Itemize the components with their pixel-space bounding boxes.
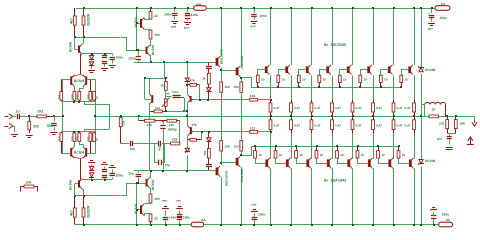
label 390 lower xyxy=(154,197,160,201)
wire front-end negative sub-rail xyxy=(75,184,127,196)
capacitor 100u supply top xyxy=(428,8,434,22)
label q3 lower xyxy=(151,180,155,190)
wire q3 lower emitter xyxy=(150,171,151,178)
label 10 npn 7 xyxy=(384,78,388,82)
svg-text:100: 100 xyxy=(234,145,239,149)
svg-text:100n: 100n xyxy=(116,56,124,60)
junction rail8 col 5 xyxy=(352,7,354,9)
wire vas upper node xyxy=(191,99,271,101)
wire front-end positive sub-rail xyxy=(75,38,127,51)
label 0.47 npn 2 xyxy=(294,106,300,110)
svg-text:0.47: 0.47 xyxy=(356,124,362,128)
transistor 2SA1943 out 3 xyxy=(306,158,311,169)
svg-text:6A: 6A xyxy=(441,2,446,6)
label 0.47 npn 7 xyxy=(397,106,403,110)
wire pnp out 4 emitter xyxy=(332,133,334,159)
ground zobel xyxy=(446,148,453,150)
junction vas chain lower xyxy=(208,131,210,133)
svg-text:0.47: 0.47 xyxy=(335,124,341,128)
ground input 22k xyxy=(26,136,33,138)
ground cap 254 bottom xyxy=(251,203,258,212)
junction bias c1 low xyxy=(104,179,106,181)
junction rail8 col 6 xyxy=(372,7,374,9)
label 0.47 npn 3 xyxy=(315,106,321,110)
svg-text:mm: mm xyxy=(162,199,167,203)
transistor Q lower diff right xyxy=(83,147,87,159)
label 1800p xyxy=(168,128,177,132)
label 10 npn 5 xyxy=(343,78,347,82)
junction input node2 xyxy=(53,115,55,117)
capacitor 47n fb xyxy=(159,141,171,146)
label 100 drv lower1 xyxy=(225,145,230,149)
junction outrail 2 xyxy=(290,115,292,117)
label 4k7 lower xyxy=(69,210,73,216)
label 0.47 npn 4 xyxy=(335,106,341,110)
resistor 2k2/2W upper xyxy=(82,8,85,37)
ground supply top xyxy=(428,24,435,31)
transistor 2SA1943 predriver xyxy=(236,156,241,167)
fuse F2 bottom xyxy=(191,222,204,227)
wire pnp out 3 collector xyxy=(311,168,313,224)
resistor 10 base pnp 6 xyxy=(356,146,359,158)
resistor 22k input xyxy=(28,116,31,133)
svg-text:390: 390 xyxy=(154,197,160,201)
label 100 drv lower2 xyxy=(234,145,239,149)
resistor upper mirror E xyxy=(93,92,96,102)
wire vbe base drop xyxy=(145,78,152,100)
svg-text:mm: mm xyxy=(176,199,181,203)
transistor 2SC5200 out 3 xyxy=(306,65,311,75)
wire npn out 1 collector xyxy=(270,8,272,65)
wire pnp out 6 collector xyxy=(373,168,375,224)
junction q3 lower emitter node xyxy=(150,170,152,172)
junction vas bottom xyxy=(186,170,188,172)
wire vbe collector xyxy=(149,78,151,94)
svg-text:10u: 10u xyxy=(128,172,134,176)
label 8x 2SA1943 xyxy=(324,179,346,183)
resistor lower diff tail C xyxy=(78,132,81,142)
resistor 100 drv lower1 xyxy=(220,141,223,151)
wire top positive rail xyxy=(76,8,435,10)
label 100u rail top xyxy=(191,13,199,17)
svg-text:4k7: 4k7 xyxy=(69,210,73,216)
label 10 npn 4 xyxy=(323,78,327,82)
junction rail8 241 xyxy=(240,7,242,9)
diode zener vas chain lower xyxy=(206,132,211,149)
diode zener ref upper2 xyxy=(89,62,94,69)
junction mje lower emitter node xyxy=(220,162,222,164)
junction rail224 col 3 xyxy=(311,224,313,226)
wire input node to 2k2 xyxy=(29,116,37,118)
wire npn out 2 collector xyxy=(291,8,293,65)
ground rail top 1 xyxy=(171,22,178,29)
ground cap 254 top xyxy=(250,22,257,29)
wire npn out 3 emitter xyxy=(311,75,313,99)
junction vbe bottom xyxy=(186,110,188,112)
capacitor 100u rail bottom xyxy=(177,211,182,225)
wire lower mirror down xyxy=(84,129,110,132)
wire npn out 8 collector xyxy=(414,8,416,65)
label 0.47 pnp 3 xyxy=(315,124,321,128)
resistor 220 zobel xyxy=(446,116,449,133)
wire PNP base rail xyxy=(242,147,399,156)
label 100n vbe xyxy=(172,90,179,94)
svg-text:0.47: 0.47 xyxy=(397,106,403,110)
wire fb node drop xyxy=(138,116,140,120)
svg-text:0.47: 0.47 xyxy=(376,124,382,128)
transistor Q upper diff right xyxy=(83,75,87,87)
capacitor 100n q2 upper xyxy=(136,50,141,62)
transistor MJE15030 xyxy=(216,166,221,177)
label BY299 upper xyxy=(425,68,435,72)
svg-text:gnd: gnd xyxy=(184,26,189,30)
transistor Q upper diff left xyxy=(70,75,74,87)
junction rail8 col 3 xyxy=(311,7,313,9)
wire mje upper base xyxy=(215,62,217,64)
wire q2 upper emitter xyxy=(145,18,151,20)
label 10 pnp 4 xyxy=(320,153,324,157)
wire pnp out 6 emitter xyxy=(373,133,375,159)
label 100n rail8 254 xyxy=(260,14,267,18)
ground rail top 2 xyxy=(184,23,191,30)
label 100u supply top xyxy=(440,16,448,20)
wire upper mirror down xyxy=(84,102,110,105)
label fuse bottom right xyxy=(446,218,451,222)
resistor 10 base npn 6 xyxy=(359,75,362,87)
wire rail224 drop 136 xyxy=(136,183,138,224)
label BC556 lower diff xyxy=(74,151,85,155)
label 47k vas lower xyxy=(192,123,198,127)
junction input node xyxy=(28,115,30,117)
junction lower tail b xyxy=(73,131,75,133)
label 100p comp xyxy=(165,163,170,167)
svg-text:102: 102 xyxy=(250,94,256,98)
capacitor 100p comp xyxy=(159,160,162,165)
label 10 coil xyxy=(432,108,436,112)
wire sense lower base xyxy=(192,131,193,133)
label fuse top xyxy=(197,3,202,7)
wire vbe top link xyxy=(164,62,166,78)
junction vbe cap drop xyxy=(183,110,185,112)
label fuse top right xyxy=(441,2,446,6)
junction vas top xyxy=(186,61,188,63)
ground bias upper c1 xyxy=(101,69,108,71)
junction rail224 221 xyxy=(220,224,222,226)
junction rail224 col 4 xyxy=(331,224,333,226)
junction rail8 col 4 xyxy=(331,7,333,9)
junction cap q2 lower xyxy=(137,182,139,184)
resistor 22 lower xyxy=(149,214,152,225)
svg-text:100u: 100u xyxy=(442,213,450,217)
connector speaker return xyxy=(467,137,474,145)
wire pnp out 8 collector xyxy=(414,168,416,224)
junction base rail npn 1 xyxy=(257,86,259,88)
resistor 10 base npn 1 xyxy=(256,75,259,87)
resistor 0.47 pnp 7 xyxy=(392,116,395,133)
junction rail224 254 xyxy=(253,224,255,226)
wire q2 upper collector xyxy=(145,30,151,31)
wire input vertical xyxy=(62,79,64,154)
junction outrail 6 xyxy=(372,115,374,117)
svg-text:10: 10 xyxy=(323,78,327,82)
wire pnp out 5 collector xyxy=(352,168,354,224)
resistor 10 base npn 8 xyxy=(400,75,403,87)
label 10 npn 8 xyxy=(405,78,409,82)
wire upper diff right collector xyxy=(80,87,84,92)
connector speaker out xyxy=(472,117,477,127)
wire vas lower node xyxy=(193,131,270,133)
junction base rail npn 5 xyxy=(339,86,341,88)
wire npn out 4 emitter xyxy=(332,75,334,99)
svg-text:8x 2SC5200: 8x 2SC5200 xyxy=(324,43,346,47)
wire pnp out 5 base xyxy=(338,159,348,164)
ground bias lower z xyxy=(88,161,95,163)
label 1u xyxy=(16,110,20,114)
junction rail196 83 xyxy=(83,195,85,197)
junction vas center xyxy=(186,115,188,117)
resistor 0.47 npn 1 xyxy=(269,100,272,117)
wire predrv upper base xyxy=(221,70,236,72)
junction base rail npn 2 xyxy=(277,86,279,88)
label q3 upper xyxy=(151,45,155,55)
junction zobel 2 xyxy=(455,115,457,117)
svg-text:1k2: 1k2 xyxy=(155,106,160,110)
junction 102 upper right xyxy=(270,99,272,101)
svg-text:10: 10 xyxy=(320,153,324,157)
svg-text:2SC5200: 2SC5200 xyxy=(240,55,244,69)
wire npn out 6 collector xyxy=(373,8,375,65)
wire upper diff left collector xyxy=(74,87,76,92)
transistor Q2 upper xyxy=(140,17,144,29)
label BC546 upper diff xyxy=(74,79,85,83)
wire q3 upper emitter xyxy=(150,56,151,63)
resistor 0.47 npn 8 xyxy=(413,100,416,117)
resistor 4k7 upper xyxy=(73,8,76,37)
svg-text:10p: 10p xyxy=(165,163,170,167)
junction rail224 241 xyxy=(240,224,242,226)
label 0.47 npn 1 xyxy=(274,106,280,110)
junction q2 lower base xyxy=(136,209,138,211)
junction q2 base xyxy=(136,22,138,24)
junction rail224 col 7 xyxy=(393,224,395,226)
wire fb lower chain xyxy=(121,143,130,145)
label fuse bottom xyxy=(202,218,207,222)
svg-text:0.47: 0.47 xyxy=(315,106,321,110)
resistor upper diff tail C xyxy=(78,92,81,102)
wire driver base upper xyxy=(134,62,216,64)
svg-text:100n: 100n xyxy=(260,14,267,18)
svg-text:102: 102 xyxy=(250,126,256,130)
svg-text:100u: 100u xyxy=(183,216,191,220)
transistor 2SA1943 out 6 xyxy=(368,158,373,169)
label 10R zobel xyxy=(459,122,465,126)
label 0.47 pnp 7 xyxy=(397,124,403,128)
wire vbe mid link xyxy=(166,90,172,99)
wire feedback vertical xyxy=(95,79,97,154)
transistor 2SC5200 out 7 xyxy=(388,65,393,75)
svg-text:100: 100 xyxy=(71,94,74,99)
wire lower diff left base xyxy=(63,153,71,155)
diode zener ref upper1 xyxy=(89,54,94,60)
resistor 100 drv upper2 xyxy=(240,82,243,92)
capacitor bias upper2 xyxy=(110,54,115,64)
transistor 2SC5200 out 5 xyxy=(347,65,352,75)
svg-text:10: 10 xyxy=(361,153,365,157)
svg-text:12k: 12k xyxy=(147,123,153,127)
transistor Q vbe xyxy=(149,94,153,105)
svg-text:gnd: gnd xyxy=(250,24,255,28)
capacitor bias lower1 xyxy=(102,167,107,180)
junction 102 lower right xyxy=(270,131,272,133)
wire pnp out 4 base xyxy=(317,159,328,164)
capacitor 100u rail top xyxy=(185,8,190,21)
wire ccs lower collector xyxy=(80,178,112,181)
resistor 10 base pnp 2 xyxy=(274,146,277,158)
svg-text:0.47: 0.47 xyxy=(294,106,300,110)
wire npn out 5 collector xyxy=(352,8,354,65)
ground bias upper z xyxy=(88,71,95,73)
svg-text:BC546: BC546 xyxy=(74,79,85,83)
wire ccs upper base xyxy=(75,37,78,49)
label 0.47 npn 6 xyxy=(376,106,382,110)
svg-text:100u: 100u xyxy=(440,16,448,20)
label 10 pnp 3 xyxy=(299,153,303,157)
wire pnp out 7 base xyxy=(379,159,389,164)
transistor 2SC5200 out 6 xyxy=(367,65,372,75)
wire npn out 7 base xyxy=(381,70,389,76)
svg-text:1u: 1u xyxy=(16,110,20,114)
svg-text:100: 100 xyxy=(58,94,61,99)
junction outrail 4 xyxy=(331,115,333,117)
label 10 pnp 8 xyxy=(402,153,406,157)
resistor 10 base pnp 3 xyxy=(295,146,298,158)
transistor 2SC5200 out 2 xyxy=(285,65,290,75)
label 100n rail224 254 xyxy=(258,213,265,217)
label 1k2 vbe bottom xyxy=(155,106,160,110)
svg-text:22: 22 xyxy=(154,14,158,18)
junction rail224 150 xyxy=(150,224,152,226)
wire npn out 4 base xyxy=(320,70,327,76)
ground input return xyxy=(11,135,18,137)
wire NPN base rail xyxy=(242,78,401,88)
ground bias lower c2 xyxy=(109,166,116,168)
wire predrv lower base xyxy=(221,162,236,164)
wire vbe bottom drop xyxy=(149,111,151,170)
svg-text:BC556: BC556 xyxy=(151,180,155,190)
wire q2 lower collector xyxy=(145,203,151,204)
resistor lower mirror E xyxy=(93,132,96,142)
junction outrail 8 xyxy=(413,115,415,117)
svg-text:390: 390 xyxy=(154,33,160,37)
junction base183 136 xyxy=(136,182,138,184)
junction outrail 7 xyxy=(393,115,395,117)
wire npn out 7 emitter xyxy=(393,75,395,99)
resistor 102 upper xyxy=(250,98,258,101)
resistor 10 base pnp 1 xyxy=(254,146,257,158)
wire npn out 2 emitter xyxy=(291,75,293,99)
svg-text:100: 100 xyxy=(76,136,79,141)
junction rail224 col 6 xyxy=(372,224,374,226)
junction rail224 col 2 xyxy=(290,224,292,226)
svg-text:0.47: 0.47 xyxy=(405,124,411,128)
svg-text:0.47: 0.47 xyxy=(405,106,411,110)
resistor 0.47 pnp 5 xyxy=(351,116,354,133)
resistor 10 base pnp 8 xyxy=(397,146,400,158)
svg-text:10: 10 xyxy=(302,78,306,82)
resistor upper mirror D xyxy=(89,79,95,101)
junction rail8 174 xyxy=(174,7,176,9)
label 47p comp xyxy=(157,146,161,151)
capacitor 100n rail8 254 xyxy=(251,8,256,20)
label 12k fb2 xyxy=(169,123,175,127)
label 10 npn 2 xyxy=(282,78,286,82)
capacitor 1u input xyxy=(18,114,30,119)
capacitor 100n rail bottom xyxy=(163,211,168,225)
junction vas node upper xyxy=(199,99,201,101)
svg-text:10: 10 xyxy=(282,78,286,82)
resistor 0.47 npn 7 xyxy=(392,100,395,117)
svg-text:10R: 10R xyxy=(26,181,33,185)
wire ccs upper collector xyxy=(80,53,112,56)
label 100u rail bottom xyxy=(183,216,191,220)
wire q2 lower base xyxy=(137,209,140,211)
svg-text:0.47: 0.47 xyxy=(335,106,341,110)
junction rail224 136 xyxy=(136,224,138,226)
wire pnp out 1 emitter xyxy=(270,133,272,159)
wire vas vertical lower xyxy=(187,136,189,171)
junction bias z low xyxy=(91,179,93,181)
label BC556 ccs lower xyxy=(69,180,73,190)
junction mje emitter node xyxy=(220,69,222,71)
junction input center xyxy=(62,115,64,117)
resistor 10 base npn 3 xyxy=(297,75,300,87)
label 4k7 upper xyxy=(69,18,73,24)
junction rail37 83 xyxy=(83,36,85,38)
wire vas input lower xyxy=(126,183,146,185)
diode zener vas upper xyxy=(185,78,190,82)
resistor 10 base pnp 4 xyxy=(315,146,318,158)
transistor Q sense upper xyxy=(187,94,191,103)
svg-text:100: 100 xyxy=(225,145,230,149)
transistor Q ccs upper xyxy=(78,44,82,55)
svg-text:MJE15030: MJE15030 xyxy=(224,170,228,186)
label 0.47 npn 5 xyxy=(356,106,362,110)
resistor lower diff tail B xyxy=(73,132,76,142)
transistor Q3 lower xyxy=(146,178,150,189)
wire q2 lower emitter xyxy=(145,214,151,216)
wire q3 lower collector xyxy=(150,189,151,195)
junction base rail pnp 1 xyxy=(254,145,256,147)
svg-text:BC546: BC546 xyxy=(134,204,138,214)
wire pnp out 8 emitter xyxy=(414,133,416,159)
svg-text:47p: 47p xyxy=(157,146,161,151)
svg-text:1k2: 1k2 xyxy=(160,84,165,88)
svg-text:BC546: BC546 xyxy=(69,42,73,52)
ground supply bottom xyxy=(430,208,437,210)
junction outrail 5 xyxy=(352,115,354,117)
resistor 22k fb xyxy=(170,142,179,145)
junction upper tail b xyxy=(73,101,75,103)
transistor Q sense lower xyxy=(188,126,192,136)
junction rail196 75 xyxy=(74,195,76,197)
junction rail8 col 7 xyxy=(393,7,395,9)
junction predrv lower emitter xyxy=(240,154,242,156)
label 390 input xyxy=(47,124,53,128)
diode zener vas lower xyxy=(185,148,190,153)
wire fb right leg xyxy=(179,121,181,144)
label 10 npn 6 xyxy=(364,78,368,82)
resistor 3k vas upper xyxy=(208,73,211,84)
